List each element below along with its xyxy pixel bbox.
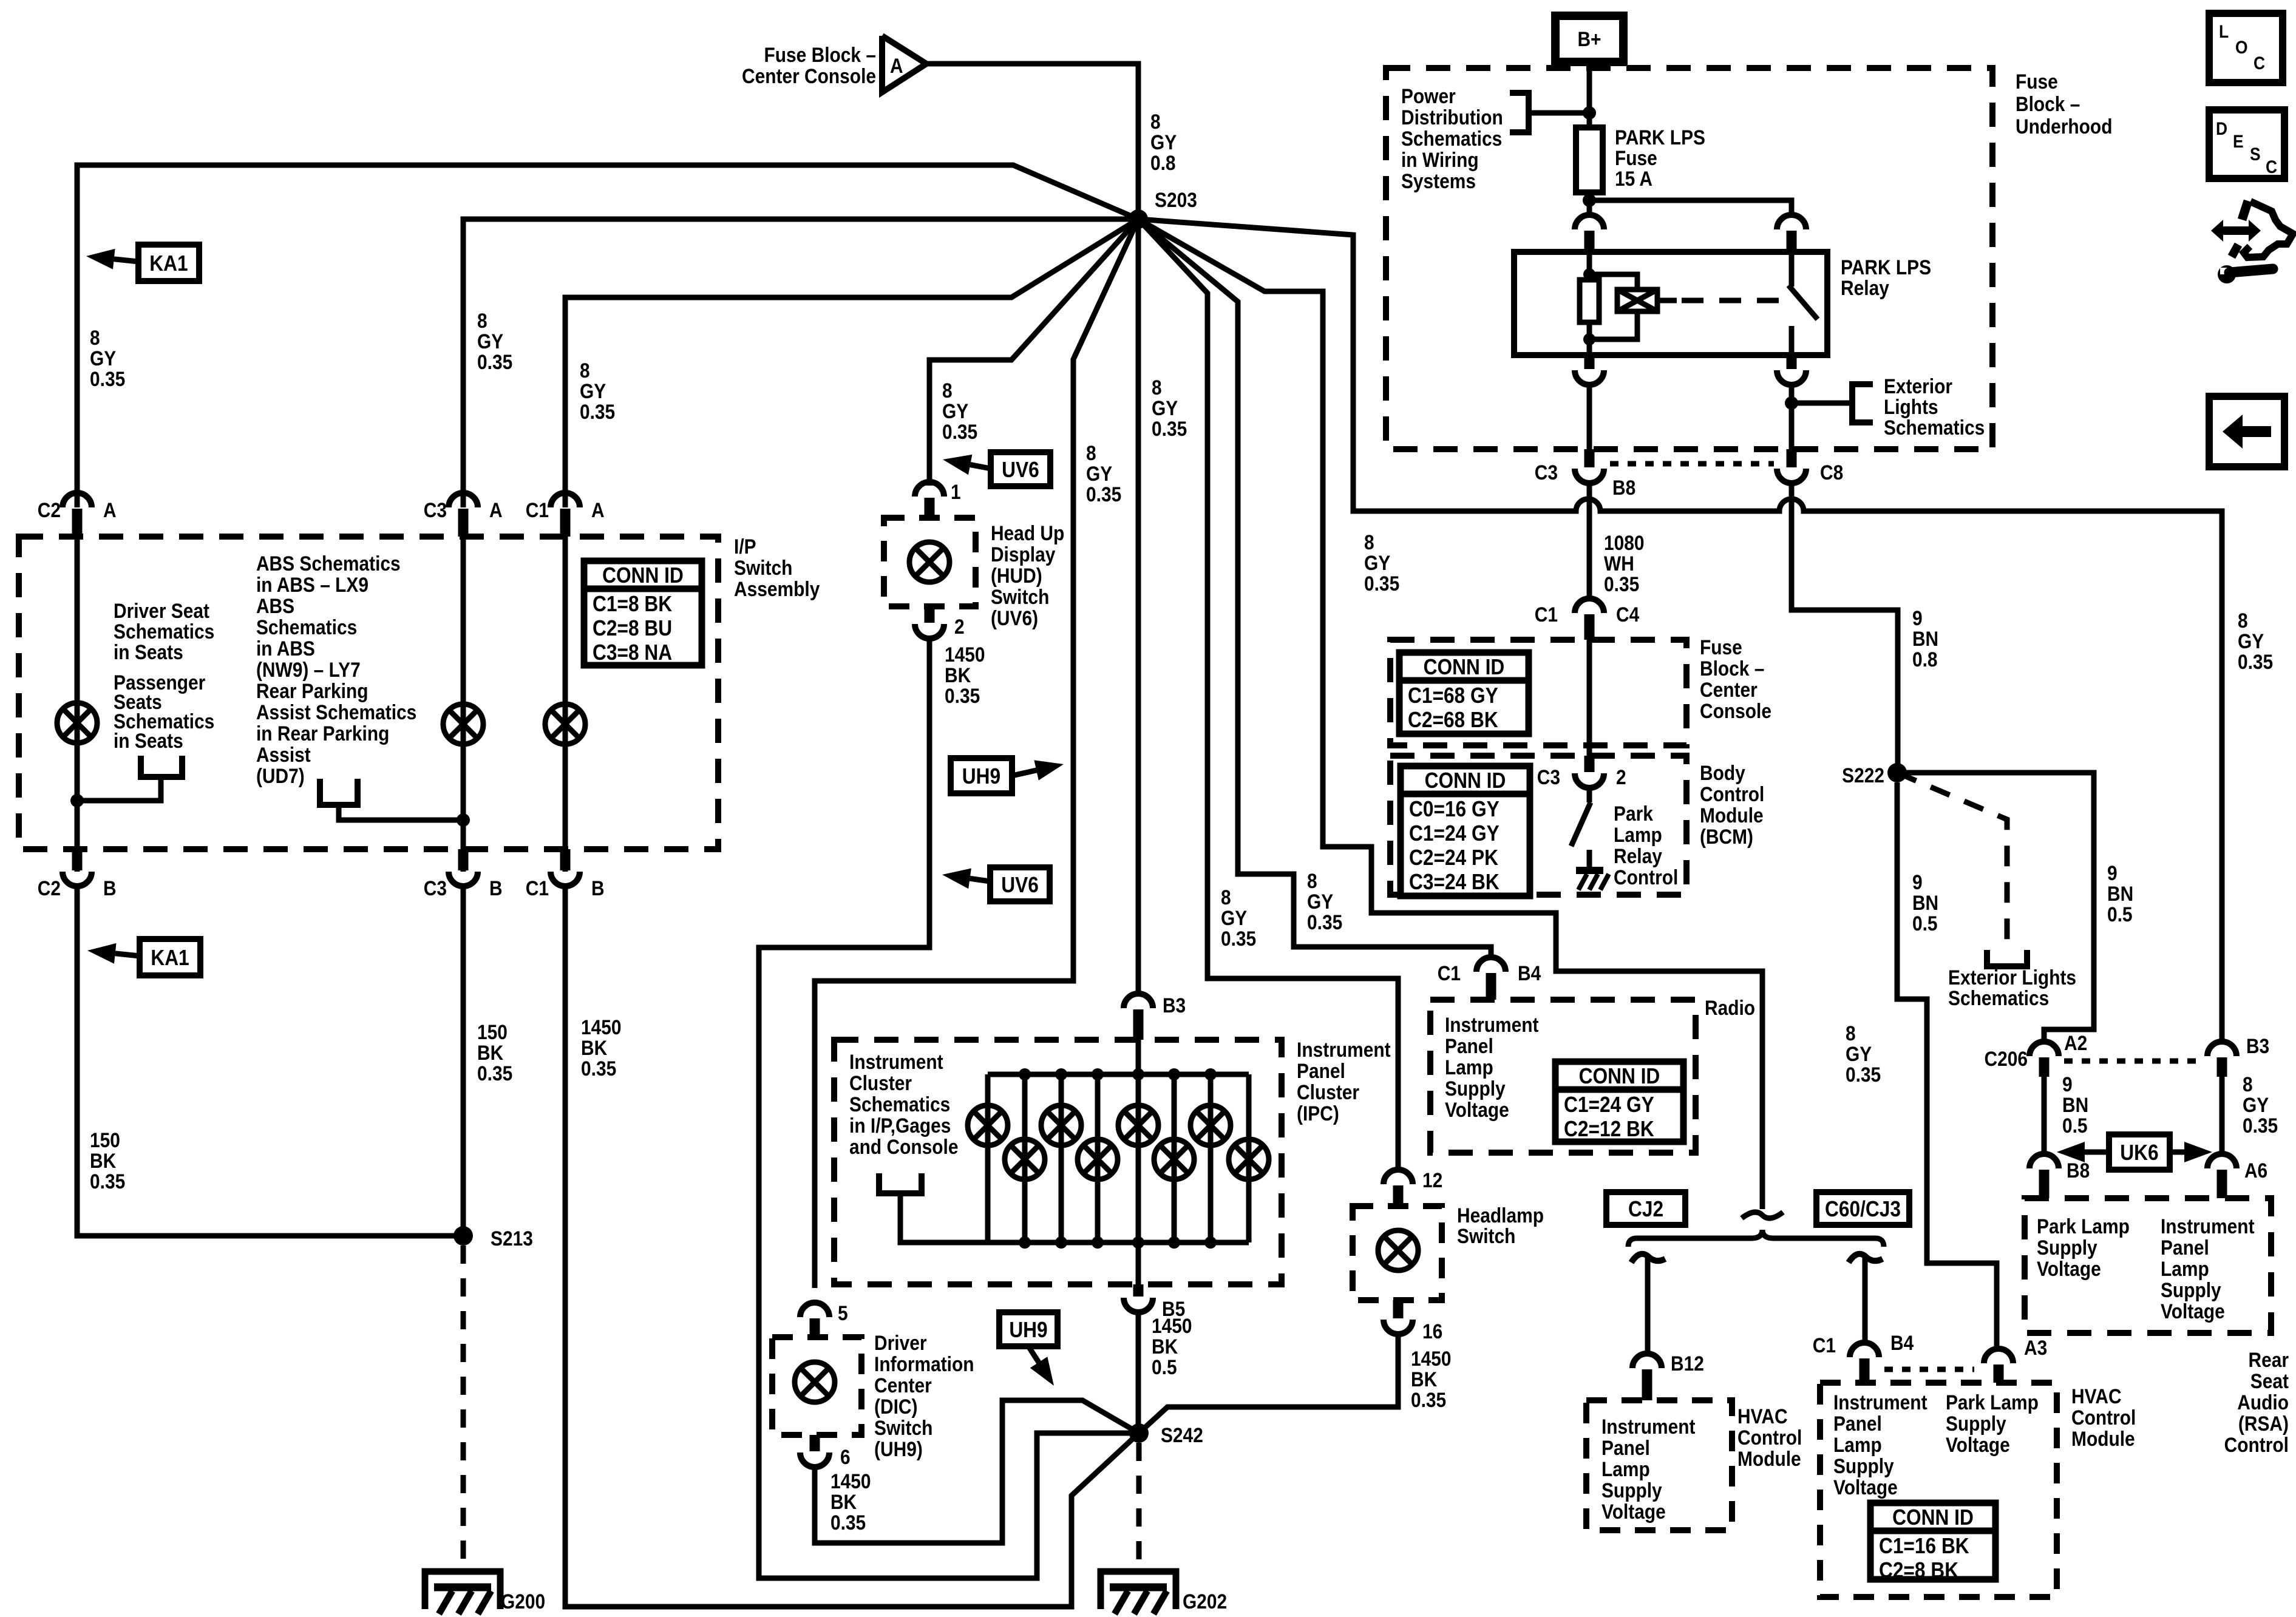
svg-text:C1=8 BK: C1=8 BK [593,592,673,616]
svg-text:C3: C3 [424,876,447,900]
svg-text:Head Up: Head Up [991,521,1064,544]
IPC lamp bus (top) [988,1072,1249,1077]
Driver Information Center switch dashed outline [772,1337,861,1435]
IPC illumination lamp 6 wire [1172,1074,1177,1242]
relay pin connector (switch side, top) [1777,215,1806,229]
svg-text:Panel: Panel [1833,1412,1882,1435]
svg-text:0.35: 0.35 [830,1511,866,1534]
BCM park lamp relay control switch [1587,788,1592,802]
svg-text:Information: Information [874,1352,974,1375]
svg-text:Control: Control [1700,782,1764,805]
headlamp switch illumination lamp [1378,1230,1418,1270]
svg-text:BN: BN [2107,882,2133,905]
bracket to instrument cluster schematics [879,1173,922,1193]
svg-text:C: C [2266,156,2277,177]
splice S222 [1887,763,1907,782]
svg-text:(HUD): (HUD) [991,564,1042,587]
svg-text:16: 16 [1422,1320,1442,1343]
wire S222 to C206/A2 (9 BN 0.5 right) [1897,773,2094,1042]
relay coil symbol [1589,274,1637,290]
connector C2/A [63,493,92,507]
svg-text:GY: GY [1086,462,1112,485]
BCM internal ground [1587,850,1592,870]
IPC illumination lamp 3 wire [1059,1074,1064,1242]
svg-text:150: 150 [477,1020,508,1043]
svg-text:S: S [2250,143,2261,164]
junction dot on C3 leg [457,813,470,827]
svg-text:0.35: 0.35 [1604,572,1639,595]
svg-text:Instrument: Instrument [1445,1013,1539,1036]
svg-text:0.35: 0.35 [1221,927,1256,950]
svg-text:Schematics: Schematics [1948,986,2049,1009]
svg-text:0.35: 0.35 [580,400,615,423]
svg-text:C1: C1 [526,876,549,900]
wire C3 down to C1/C4 (1080 WH 0.35) [1587,483,1592,598]
DESC reference box [2209,110,2284,178]
svg-text:0.8: 0.8 [1912,648,1938,671]
I/P Switch Assembly dashed outline [19,537,718,849]
Rear Seat Audio control dashed outline [2025,1198,2271,1333]
svg-text:Cluster: Cluster [1297,1080,1359,1103]
svg-text:Schematics: Schematics [849,1093,950,1116]
svg-text:Headlamp: Headlamp [1457,1204,1544,1227]
svg-text:B8: B8 [1612,476,1635,499]
svg-text:0.5: 0.5 [2107,903,2133,926]
svg-text:GY: GY [1152,396,1178,419]
svg-text:B4: B4 [1518,961,1541,985]
UH9 arrow (upper) [1012,770,1036,776]
DIC illumination lamp [795,1362,835,1402]
UV6 off-page label (upper) [991,452,1050,486]
svg-text:ABS Schematics: ABS Schematics [256,552,401,575]
relay actuation dashed link [1657,298,1677,303]
svg-text:Switch: Switch [734,556,792,579]
svg-text:in I/P,Gages: in I/P,Gages [849,1114,951,1137]
HVAC control module dashed outline (left) [1586,1400,1732,1530]
connector C1/C4 (fuse block center console) [1575,598,1604,613]
svg-text:Panel: Panel [2161,1236,2209,1259]
connector pin 16 (headlamp switch) [1393,1300,1404,1318]
connector C3/2 (BCM) [1584,756,1595,772]
svg-text:C2: C2 [38,498,61,521]
connector B12 (HVAC) [1632,1354,1662,1368]
HVAC control module dashed outline (right) [1820,1383,2057,1597]
svg-text:UH9: UH9 [962,764,1000,788]
svg-text:in Seats: in Seats [114,729,183,752]
svg-text:1080: 1080 [1604,531,1645,554]
connector C8 at fuse block underhood [1787,449,1797,467]
UV6 arrow (upper) [970,465,991,469]
svg-text:1450: 1450 [1411,1347,1452,1370]
svg-text:HVAC: HVAC [2071,1385,2122,1408]
svg-text:O: O [2235,36,2248,57]
svg-text:Center Console: Center Console [742,64,876,87]
junction dot on C2 leg [70,794,84,807]
svg-text:0.35: 0.35 [1411,1388,1446,1411]
svg-text:C1: C1 [1438,961,1461,985]
svg-text:Assembly: Assembly [734,577,820,600]
svg-text:Instrument: Instrument [1297,1038,1391,1061]
svg-text:C8: C8 [1820,461,1843,484]
CONN ID table (fuse block center console) [1399,653,1529,734]
bus junction dots col 7 [1204,1068,1217,1080]
IPC illumination lamp 5 wire [1136,1074,1141,1242]
svg-text:B3: B3 [1163,994,1186,1017]
wire A2 down to B8 (9 BN 0.5) [2042,1077,2047,1154]
svg-text:0.35: 0.35 [477,1062,512,1085]
svg-text:CONN ID: CONN ID [1579,1064,1660,1088]
svg-text:Instrument: Instrument [1833,1391,1927,1414]
dotted connector line C3-B8 to C8 [1610,461,1774,467]
svg-text:Lamp: Lamp [2161,1257,2209,1280]
svg-text:8: 8 [1307,869,1317,892]
svg-text:8: 8 [477,309,487,332]
svg-text:Rear: Rear [2248,1348,2289,1371]
IPC return wire bus to B5 [1136,1242,1141,1284]
svg-text:Switch: Switch [874,1416,932,1439]
svg-text:S222: S222 [1842,764,1884,787]
svg-text:Assist Schematics: Assist Schematics [256,700,416,724]
svg-text:Module: Module [1737,1447,1801,1470]
svg-text:G202: G202 [1183,1590,1227,1613]
svg-text:Park Lamp: Park Lamp [2037,1215,2130,1238]
svg-text:C3: C3 [1537,765,1560,788]
svg-text:L: L [2219,21,2229,41]
bus junction dots col 5 [1132,1068,1144,1080]
svg-text:Body: Body [1700,761,1745,784]
svg-text:Voltage: Voltage [1833,1476,1898,1499]
svg-text:1450: 1450 [1152,1314,1192,1337]
svg-text:Power: Power [1401,84,1456,107]
connector C2/B [72,849,83,870]
connector A6 (RSA) [2207,1154,2237,1168]
svg-text:0.35: 0.35 [90,367,125,390]
svg-text:GY: GY [2243,1093,2269,1116]
svg-text:B: B [591,876,605,900]
svg-text:5: 5 [838,1301,848,1324]
svg-text:UV6: UV6 [1002,458,1039,482]
svg-text:0.35: 0.35 [945,684,980,707]
svg-text:(UV6): (UV6) [991,606,1038,629]
svg-text:Schematics: Schematics [1884,416,1985,439]
svg-text:ABS: ABS [256,594,294,617]
Radio dashed outline [1430,1000,1696,1153]
svg-text:GY: GY [580,379,606,402]
bracket to ABS schematics [320,779,358,805]
wire headlamp pin 16 to S242 [1139,1334,1398,1433]
svg-text:0.35: 0.35 [2238,650,2273,673]
svg-text:Distribution: Distribution [1401,106,1503,129]
svg-text:Assist: Assist [256,743,311,766]
bracket to Power Distribution Schematics [1510,93,1529,132]
svg-text:C1: C1 [1813,1334,1836,1357]
splice S242 [1129,1423,1149,1443]
svg-text:S213: S213 [491,1227,533,1250]
svg-text:8: 8 [580,359,590,382]
svg-text:BK: BK [90,1149,116,1172]
svg-text:(NW9) – LY7: (NW9) – LY7 [256,658,361,681]
UK6 arrow right [2170,1150,2184,1155]
svg-text:C3=24 BK: C3=24 BK [1409,870,1500,894]
connector B3 (IPC) [1124,994,1153,1008]
svg-text:E: E [2233,131,2244,151]
connector C3/B8 at fuse block underhood [1584,449,1595,467]
svg-text:Voltage: Voltage [1445,1098,1509,1121]
IPC illumination lamp 2 [1005,1139,1045,1179]
relay switch blade [1789,252,1795,286]
svg-text:BK: BK [1152,1335,1178,1358]
LOC reference box [2209,13,2283,83]
svg-text:0.35: 0.35 [1364,572,1399,595]
svg-text:1450: 1450 [830,1470,871,1493]
vehicle service icon [2232,201,2293,257]
KA1 off-page label (upper) [138,245,199,281]
connector C1/B4 (HVAC) [1850,1343,1879,1357]
svg-text:B+: B+ [1577,27,1601,50]
svg-text:A2: A2 [2064,1031,2087,1054]
wire C1/B down and right to S242 (1450 BK 0.35) [565,886,1139,1607]
PARK LPS relay box [1514,252,1827,355]
svg-text:8: 8 [1152,376,1162,399]
connector pin 2 (HUD switch) [925,606,935,623]
svg-text:Lamp: Lamp [1445,1056,1493,1079]
wire from triangle A to S203 [926,64,1138,219]
svg-text:C2: C2 [38,876,61,900]
bracket to Exterior Lights Schematics (S222) [1987,950,2027,966]
connector C206/A2 [2029,1042,2059,1056]
svg-text:in Seats: in Seats [114,640,183,663]
dotted connector line B4 to A3 [1884,1367,1974,1372]
svg-text:GY: GY [1846,1042,1872,1065]
svg-text:C206: C206 [1985,1047,2028,1070]
CONN ID table (radio) [1555,1062,1683,1142]
svg-text:BN: BN [1912,891,1938,914]
wire C2/B down to S213 (150 BK 0.35) [77,886,463,1236]
IPC illumination lamp 8 wire [1246,1074,1252,1242]
relay pin connector (switch side, bottom) [1787,355,1797,369]
svg-text:C0=16 GY: C0=16 GY [1409,797,1500,821]
Fuse Block Center Console dashed outline [1390,640,1686,745]
wire S203 to radio B4 [1138,219,1491,958]
wire S203 to headlamp switch pin 12 [1138,219,1398,1167]
relay coil resistor [1587,252,1592,280]
svg-text:Switch: Switch [1457,1224,1515,1247]
svg-text:2: 2 [1616,765,1626,788]
svg-text:Schematics: Schematics [1401,127,1502,150]
UH9 off-page label (lower) [999,1312,1058,1346]
svg-text:1: 1 [951,480,961,503]
svg-text:Exterior Lights: Exterior Lights [1948,966,2076,989]
svg-text:Fuse: Fuse [1700,636,1742,659]
connector C3/A [449,493,478,507]
svg-text:C2=8 BU: C2=8 BU [593,616,672,640]
connector pin 6 (DIC switch) [810,1435,820,1451]
svg-text:8: 8 [2243,1073,2253,1096]
svg-text:C1=16 BK: C1=16 BK [1879,1534,1969,1558]
svg-text:Park Lamp: Park Lamp [1946,1391,2039,1414]
brace drop to B12 [1631,1254,1665,1263]
svg-text:0.35: 0.35 [90,1170,125,1193]
svg-text:Supply: Supply [1445,1077,1506,1100]
svg-text:Voltage: Voltage [1946,1433,2010,1456]
connector C3/B [458,849,469,870]
svg-text:and Console: and Console [849,1135,958,1158]
svg-text:in Wiring: in Wiring [1401,148,1479,171]
svg-text:UV6: UV6 [1001,873,1039,897]
svg-text:UH9: UH9 [1009,1318,1047,1342]
wire B+ to fuse [1587,63,1592,127]
HUD illumination lamp [909,542,949,582]
svg-text:Supply: Supply [1833,1454,1894,1477]
svg-text:Switch: Switch [991,585,1049,608]
svg-text:PARK LPS: PARK LPS [1615,126,1705,149]
svg-text:(IPC): (IPC) [1297,1102,1339,1125]
svg-text:Module: Module [1700,804,1764,827]
svg-text:Fuse Block –: Fuse Block – [764,43,876,66]
wire S203 to RSA B3 (long right run with hops) [1138,219,2222,1043]
IPC illumination lamp 7 wire [1208,1074,1214,1242]
svg-text:Control: Control [1737,1426,1802,1449]
splice S203 [1129,209,1148,229]
svg-text:8: 8 [1364,531,1374,554]
svg-text:G200: G200 [501,1590,545,1613]
svg-text:KA1: KA1 [149,251,188,276]
svg-text:Panel: Panel [1445,1034,1493,1057]
svg-text:Console: Console [1700,699,1771,722]
svg-text:Supply: Supply [1946,1412,2006,1435]
IPC feed wire B3 to bus [1136,1040,1141,1074]
svg-text:BK: BK [477,1041,503,1064]
IPC illumination lamp 6 [1154,1139,1194,1179]
svg-text:C1=68 GY: C1=68 GY [1408,683,1498,708]
svg-text:Cluster: Cluster [849,1071,912,1094]
svg-text:Control: Control [2071,1406,2136,1429]
Body Control Module dashed outline [1390,756,1686,895]
svg-text:UK6: UK6 [2120,1141,2158,1165]
UH9 off-page label (upper) [951,758,1012,793]
wire break symbol on brace feed [1742,1212,1783,1218]
svg-text:9: 9 [1912,870,1923,893]
wire relay switch-side down to C8 [1789,385,1795,449]
dashed wire S242 to G202 [1136,1443,1142,1570]
wire C1 through I/P switch assembly [563,537,568,872]
splice S213 [453,1226,473,1246]
svg-text:HVAC: HVAC [1737,1405,1788,1428]
svg-text:WH: WH [1604,552,1634,575]
wire B3 down to A6 (8 GY 0.35) [2220,1077,2225,1154]
svg-text:(RSA): (RSA) [2238,1412,2289,1435]
svg-text:A: A [489,498,503,521]
svg-text:Schematics: Schematics [256,615,357,639]
fuse PARK LPS 15A [1576,127,1603,192]
svg-text:Instrument: Instrument [2161,1215,2255,1238]
svg-text:0.35: 0.35 [2243,1114,2278,1137]
svg-text:8: 8 [1846,1022,1856,1045]
connector pin 1 (HUD switch) [915,482,944,497]
svg-text:B4: B4 [1890,1331,1914,1354]
wire relay coil-side down to C3 [1587,385,1592,449]
svg-text:0.35: 0.35 [1086,483,1121,506]
svg-text:1450: 1450 [945,643,985,666]
svg-text:C2=24 PK: C2=24 PK [1409,846,1498,870]
svg-text:Relay: Relay [1841,276,1889,299]
bus junction dots col 2 [1019,1068,1031,1080]
wire S203 down to IPC B3 [1136,219,1141,994]
svg-text:in ABS – LX9: in ABS – LX9 [256,573,369,596]
svg-text:(UH9): (UH9) [874,1437,923,1460]
bus junction dots col 4 [1092,1068,1104,1080]
relay pin connector (coil side, top) [1575,215,1604,229]
svg-text:C4: C4 [1616,603,1639,626]
Fuse Block - Underhood dashed outline [1386,68,1992,449]
wire S203 to C1 branch [565,219,1138,507]
svg-text:Lights: Lights [1884,395,1938,418]
svg-text:I/P: I/P [734,535,756,558]
IPC illumination lamp 2 wire [1022,1074,1028,1242]
svg-text:15 A: 15 A [1615,167,1652,190]
CONN ID table (HVAC) [1870,1503,1995,1579]
wire C8 down to S222 [1792,483,1898,773]
svg-text:6: 6 [840,1445,851,1468]
svg-text:Driver: Driver [874,1331,926,1354]
svg-text:B: B [489,876,503,900]
KA1 off-page label (lower) [140,939,200,975]
svg-text:C2=8 BK: C2=8 BK [1879,1558,1959,1582]
svg-text:Panel: Panel [1601,1436,1650,1459]
vehicle service icon double arrow [2211,220,2261,242]
svg-text:Control: Control [2224,1433,2289,1456]
svg-text:C3: C3 [1535,461,1558,484]
KA1 arrow (lower) [115,954,140,956]
svg-text:12: 12 [1422,1168,1442,1192]
wire C2 through I/P switch assembly [75,537,80,872]
svg-text:Park: Park [1614,802,1653,825]
svg-text:B: B [103,876,117,900]
svg-text:BN: BN [1912,627,1938,650]
svg-text:GY: GY [1364,551,1390,574]
dashed wire S213 to G200 [461,1246,466,1570]
svg-text:0.35: 0.35 [942,420,977,443]
svg-text:C: C [2254,52,2265,73]
svg-text:9: 9 [1912,606,1923,629]
svg-text:Display: Display [991,543,1056,566]
connector C1/B [560,849,571,870]
bracket to seats schematics [141,756,182,777]
connector B8 (RSA) [2029,1154,2059,1168]
svg-text:0.35: 0.35 [1307,910,1342,934]
svg-text:8: 8 [2238,609,2248,632]
svg-text:Voltage: Voltage [1601,1500,1666,1523]
wire C3 through I/P switch assembly [461,537,466,872]
svg-text:A: A [591,498,605,521]
svg-text:BK: BK [945,663,971,686]
svg-text:C1: C1 [526,498,549,521]
wire S203 to HUD switch pin 1 [929,219,1138,486]
svg-text:Radio: Radio [1705,996,1755,1019]
svg-text:PARK LPS: PARK LPS [1841,256,1931,279]
svg-text:in ABS: in ABS [256,637,315,660]
svg-text:Fuse: Fuse [2016,70,2058,93]
svg-text:C1: C1 [1535,603,1558,626]
svg-text:B8: B8 [2067,1159,2090,1182]
off-page connector triangle A [882,36,926,92]
svg-text:C1=24 GY: C1=24 GY [1564,1093,1654,1117]
svg-text:8: 8 [942,379,953,402]
connector B3 (RSA feed) [2207,1042,2237,1056]
svg-text:Block –: Block – [2016,92,2080,115]
wire S203 to DIC switch pin 5 [815,219,1138,1288]
IPC illumination lamp 5 [1118,1105,1158,1145]
